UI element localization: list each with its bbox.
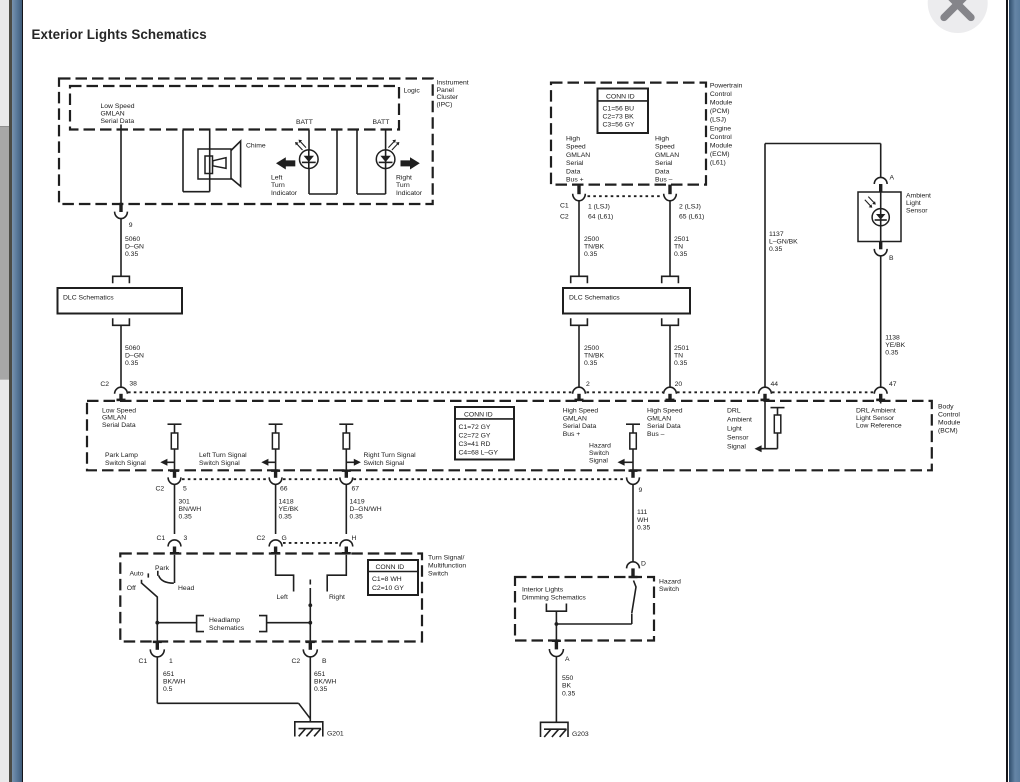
svg-text:GMLAN: GMLAN <box>102 415 126 422</box>
svg-text:67: 67 <box>352 485 360 492</box>
switch headlamp (Auto/Park/Off/Head) <box>142 555 175 642</box>
module box Hazard Switch <box>515 577 654 641</box>
svg-text:Left: Left <box>277 594 288 601</box>
svg-text:DRL: DRL <box>727 408 741 415</box>
wire 5060 D-GN 0.35 (lower) <box>120 325 122 387</box>
svg-text:Turn: Turn <box>271 182 285 189</box>
svg-text:44: 44 <box>771 381 779 388</box>
svg-text:C1: C1 <box>560 203 569 210</box>
wire 1419 D-GN/WH <box>345 484 347 534</box>
logic box (IPC internal) <box>70 86 399 130</box>
svg-text:BK/WH: BK/WH <box>163 679 185 686</box>
svg-text:0.35: 0.35 <box>314 686 327 693</box>
svg-text:C1=72 GY: C1=72 GY <box>459 424 491 431</box>
svg-text:Logic: Logic <box>404 88 421 95</box>
svg-text:DLC Schematics: DLC Schematics <box>569 294 620 301</box>
svg-text:0.35: 0.35 <box>584 360 597 367</box>
svg-text:Bus –: Bus – <box>655 177 673 184</box>
svg-text:GMLAN: GMLAN <box>655 152 679 159</box>
arrow park lamp switch signal <box>160 459 167 466</box>
wire 2501 TN lower <box>669 325 671 387</box>
svg-text:B: B <box>889 255 894 262</box>
svg-text:C2=73 BK: C2=73 BK <box>603 114 635 121</box>
svg-text:1418: 1418 <box>279 498 294 505</box>
svg-text:BK: BK <box>562 683 572 690</box>
svg-text:9: 9 <box>129 222 133 229</box>
svg-text:Module: Module <box>710 100 733 107</box>
svg-text:0.35: 0.35 <box>125 360 138 367</box>
svg-text:Serial Data: Serial Data <box>563 423 597 430</box>
svg-text:38: 38 <box>129 380 137 387</box>
svg-text:Serial Data: Serial Data <box>102 422 136 429</box>
svg-text:Serial Data: Serial Data <box>647 423 681 430</box>
arrow left turn <box>276 157 295 169</box>
svg-text:Multifunction: Multifunction <box>428 562 466 569</box>
svg-text:D–GN: D–GN <box>125 353 144 360</box>
svg-text:GMLAN: GMLAN <box>101 111 125 118</box>
node junction headlamp out <box>155 621 159 625</box>
svg-text:C1: C1 <box>157 535 166 542</box>
svg-text:C2: C2 <box>257 535 266 542</box>
svg-text:BK/WH: BK/WH <box>314 679 336 686</box>
svg-text:C2: C2 <box>156 486 165 493</box>
svg-text:Sensor: Sensor <box>906 208 928 215</box>
dashed tie G-H <box>283 542 339 544</box>
svg-text:Control: Control <box>938 411 960 418</box>
dotted tie line across BCM top connectors <box>128 391 874 393</box>
sensor ALS (Ambient Light Sensor) <box>858 192 901 242</box>
svg-text:Ambient: Ambient <box>727 417 752 424</box>
svg-text:(LSJ): (LSJ) <box>710 117 726 124</box>
svg-text:TN: TN <box>674 353 683 360</box>
svg-text:Low Reference: Low Reference <box>856 423 902 430</box>
module box BCM (Body Control Module) <box>87 401 932 470</box>
box DLC Schematics (left) <box>58 288 183 314</box>
svg-text:Bus –: Bus – <box>647 431 665 438</box>
svg-text:A: A <box>565 656 570 663</box>
svg-text:High: High <box>566 136 580 143</box>
svg-text:2501: 2501 <box>674 345 689 352</box>
svg-text:Hazard: Hazard <box>589 442 611 449</box>
svg-text:Low Speed: Low Speed <box>102 407 136 414</box>
svg-text:550: 550 <box>562 675 574 682</box>
wire hazard out <box>555 611 557 640</box>
svg-text:CONN ID: CONN ID <box>376 564 405 571</box>
svg-text:1137: 1137 <box>769 231 784 238</box>
svg-text:Data: Data <box>566 168 581 175</box>
staples to DLC2 top <box>571 276 588 283</box>
resistor park lamp (BCM) <box>168 424 182 470</box>
svg-text:C3=56 GY: C3=56 GY <box>603 122 635 129</box>
svg-text:C3=41 RD: C3=41 RD <box>459 441 491 448</box>
SCHEM3 <box>120 554 466 642</box>
svg-text:GMLAN: GMLAN <box>566 152 590 159</box>
svg-text:Left: Left <box>271 175 282 182</box>
switch turn signal left contact <box>276 555 294 592</box>
svg-text:Head: Head <box>178 585 194 592</box>
svg-text:DLC Schematics: DLC Schematics <box>63 294 114 301</box>
wire 1137 L-GN/BK <box>765 143 881 145</box>
arrow left turn signal switch signal <box>261 459 268 466</box>
svg-text:Powertrain: Powertrain <box>710 82 743 89</box>
svg-text:G: G <box>282 535 287 542</box>
svg-text:Control: Control <box>710 91 732 98</box>
svg-text:9: 9 <box>639 487 643 494</box>
module box IPC (Instrument Panel Cluster) <box>59 79 433 205</box>
svg-text:5: 5 <box>183 486 187 493</box>
svg-text:Light Sensor: Light Sensor <box>856 415 895 422</box>
wire ground run <box>157 702 298 704</box>
connector C1 pin 1 (MFS out) <box>153 641 162 644</box>
staple interior lights dimming <box>546 604 566 612</box>
svg-text:Module: Module <box>938 419 961 426</box>
svg-text:0.5: 0.5 <box>163 686 173 693</box>
svg-text:Switch Signal: Switch Signal <box>364 460 405 467</box>
arrow right turn <box>401 157 420 169</box>
wire 2501 TN upper <box>669 201 671 276</box>
switch turn signal common <box>309 580 311 585</box>
wire 550 BK <box>555 656 557 722</box>
svg-text:111: 111 <box>637 509 648 516</box>
connector C1/C2 pin 2/65 <box>668 185 671 195</box>
svg-text:(ECM): (ECM) <box>710 151 730 158</box>
svg-text:Ambient: Ambient <box>906 193 931 200</box>
svg-text:0.35: 0.35 <box>769 246 782 253</box>
svg-text:High Speed: High Speed <box>647 408 683 415</box>
wire low speed GMLAN from IPC <box>120 125 122 204</box>
svg-text:B: B <box>322 658 327 665</box>
arrow right turn signal switch signal <box>354 459 361 466</box>
dotted connector tie line <box>588 195 663 197</box>
wire 651 BK/WH 0.35 <box>309 656 311 721</box>
svg-text:0.35: 0.35 <box>350 514 363 521</box>
svg-text:CONN ID: CONN ID <box>606 93 635 100</box>
svg-text:Chime: Chime <box>246 143 266 150</box>
svg-text:2500: 2500 <box>584 345 599 352</box>
svg-text:BATT: BATT <box>296 119 313 126</box>
wire 2500 TN/BK upper <box>578 201 580 276</box>
lamp left turn indicator <box>295 130 337 194</box>
svg-text:651: 651 <box>314 671 326 678</box>
svg-text:Turn: Turn <box>396 182 410 189</box>
svg-text:D–GN: D–GN <box>125 244 144 251</box>
svg-text:C1: C1 <box>139 658 148 665</box>
module box Turn Signal/Multifunction Switch <box>120 554 422 642</box>
chime speaker icon <box>183 130 241 192</box>
svg-text:GMLAN: GMLAN <box>563 415 587 422</box>
wire 2500 TN/BK lower <box>578 325 580 387</box>
svg-text:1 (LSJ): 1 (LSJ) <box>588 203 610 210</box>
svg-text:Light: Light <box>727 426 742 433</box>
svg-text:1: 1 <box>169 658 173 665</box>
svg-text:66: 66 <box>280 485 288 492</box>
svg-text:C2: C2 <box>560 213 569 220</box>
wire 1138 YE/BK <box>880 256 882 388</box>
dotted tie line BCM bottom connectors <box>182 478 269 480</box>
wire to headlamp schematics <box>157 622 196 624</box>
svg-text:Body: Body <box>938 403 954 410</box>
svg-text:TN/BK: TN/BK <box>584 353 604 360</box>
conn id table (PCM) <box>598 89 649 134</box>
svg-text:Engine: Engine <box>710 125 731 132</box>
svg-text:Left Turn Signal: Left Turn Signal <box>199 452 247 459</box>
svg-text:GMLAN: GMLAN <box>647 415 671 422</box>
stub pin 47 internal <box>880 401 882 404</box>
svg-text:Speed: Speed <box>655 144 675 151</box>
wire to ambient light sensor pin A <box>880 144 882 178</box>
svg-text:Module: Module <box>710 143 733 150</box>
connector C2 pin 5 exit <box>170 469 179 472</box>
staples from DLC2 bottom <box>571 318 588 325</box>
ground G201 <box>295 721 323 737</box>
ground G203 <box>541 722 569 738</box>
bracket headlamp schematics left <box>197 616 204 632</box>
svg-text:Signal: Signal <box>589 458 608 465</box>
connector pin 9 (IPC) <box>119 203 122 212</box>
svg-text:301: 301 <box>179 498 191 505</box>
svg-text:Instrument: Instrument <box>437 80 469 87</box>
svg-text:Sensor: Sensor <box>727 435 749 442</box>
svg-text:Park: Park <box>155 565 170 572</box>
close button <box>928 0 988 33</box>
svg-text:Right Turn Signal: Right Turn Signal <box>364 452 417 459</box>
svg-text:A: A <box>890 175 895 182</box>
svg-text:Low Speed: Low Speed <box>101 103 135 110</box>
svg-text:C2=10 GY: C2=10 GY <box>372 585 404 592</box>
connector C2 pin B (MFS out) <box>306 641 315 644</box>
svg-text:G201: G201 <box>327 730 344 737</box>
arrow DRL sensor signal <box>755 445 762 452</box>
connector pin 9 exit <box>629 469 638 472</box>
svg-text:Interior Lights: Interior Lights <box>522 587 564 594</box>
svg-text:C4=68 L–GY: C4=68 L–GY <box>459 449 499 456</box>
wire DRL sensor signal (pin 44 internal) <box>764 401 766 449</box>
arrow hazard switch signal <box>618 459 625 466</box>
switch turn signal right contact <box>327 555 346 592</box>
bracket headlamp schematics right <box>259 616 267 632</box>
svg-text:D–GN/WH: D–GN/WH <box>350 506 382 513</box>
svg-text:0.35: 0.35 <box>637 525 650 532</box>
svg-text:Indicator: Indicator <box>271 190 298 197</box>
svg-text:Schematics: Schematics <box>209 625 245 632</box>
resistor hazard (BCM) <box>626 424 640 470</box>
svg-text:(PCM): (PCM) <box>710 108 730 115</box>
svg-text:0.35: 0.35 <box>584 251 597 258</box>
svg-text:D: D <box>641 561 646 568</box>
svg-text:0.35: 0.35 <box>125 251 138 258</box>
svg-text:20: 20 <box>675 381 683 388</box>
svg-text:0.35: 0.35 <box>279 514 292 521</box>
svg-text:Park Lamp: Park Lamp <box>105 452 138 459</box>
svg-text:Light: Light <box>906 200 921 207</box>
svg-text:0.35: 0.35 <box>674 360 687 367</box>
svg-text:Switch Signal: Switch Signal <box>199 460 240 467</box>
svg-text:5060: 5060 <box>125 236 140 243</box>
svg-text:DRL Ambient: DRL Ambient <box>856 407 896 414</box>
resistor right turn signal (BCM) <box>339 424 353 470</box>
box DLC Schematics (right) <box>563 288 690 314</box>
svg-text:5060: 5060 <box>125 345 140 352</box>
svg-text:Dimming Schematics: Dimming Schematics <box>522 594 586 601</box>
SCHEM2 <box>87 401 961 470</box>
svg-text:Switch Signal: Switch Signal <box>105 460 146 467</box>
wire 111 WH <box>632 484 634 562</box>
wire 1418 YE/BK <box>275 484 277 534</box>
svg-text:2: 2 <box>586 381 590 388</box>
svg-text:Turn Signal/: Turn Signal/ <box>428 554 465 561</box>
SCHEMATIC <box>59 79 469 205</box>
svg-text:BN/WH: BN/WH <box>179 506 202 513</box>
wire 5060 D-GN 0.35 (upper) <box>120 219 122 276</box>
svg-text:3: 3 <box>184 535 188 542</box>
svg-text:(BCM): (BCM) <box>938 427 958 434</box>
svg-text:BATT: BATT <box>373 119 390 126</box>
connector C1/C2 pin 1/64 <box>577 185 580 195</box>
svg-text:0.35: 0.35 <box>885 350 898 357</box>
svg-text:2501: 2501 <box>674 236 689 243</box>
svg-text:Switch: Switch <box>428 570 448 577</box>
svg-text:47: 47 <box>889 381 897 388</box>
svg-text:651: 651 <box>163 671 175 678</box>
svg-text:L–GN/BK: L–GN/BK <box>769 239 798 246</box>
svg-text:C1=8 WH: C1=8 WH <box>372 576 402 583</box>
svg-text:High Speed: High Speed <box>563 408 599 415</box>
svg-text:C1=56 BU: C1=56 BU <box>603 106 635 113</box>
wire 301 BN/WH <box>174 484 176 534</box>
svg-text:0.35: 0.35 <box>674 251 687 258</box>
svg-text:Right: Right <box>329 594 345 601</box>
conn id table (MFS) <box>368 560 418 595</box>
svg-text:CONN ID: CONN ID <box>464 412 493 419</box>
svg-text:Right: Right <box>396 175 412 182</box>
svg-text:1138: 1138 <box>885 334 900 341</box>
svg-text:Speed: Speed <box>566 144 586 151</box>
svg-text:Headlamp: Headlamp <box>209 617 240 624</box>
svg-text:H: H <box>352 535 357 542</box>
svg-text:Bus +: Bus + <box>566 177 584 184</box>
svg-text:(L61): (L61) <box>710 160 726 167</box>
svg-text:Indicator: Indicator <box>396 190 423 197</box>
off-page staple to DLC (top) <box>113 276 130 283</box>
svg-text:2 (LSJ): 2 (LSJ) <box>679 203 701 210</box>
svg-text:TN/BK: TN/BK <box>584 244 604 251</box>
switch hazard blade <box>632 581 636 614</box>
svg-text:Off: Off <box>127 585 136 592</box>
off-page staple from DLC (bottom) <box>113 318 130 325</box>
svg-text:YE/BK: YE/BK <box>885 342 905 349</box>
svg-text:1419: 1419 <box>350 498 365 505</box>
svg-text:0.35: 0.35 <box>179 514 192 521</box>
svg-text:Panel: Panel <box>437 87 455 94</box>
svg-text:(IPC): (IPC) <box>437 101 453 108</box>
svg-text:Bus +: Bus + <box>563 431 581 438</box>
svg-text:64 (L61): 64 (L61) <box>588 214 613 221</box>
svg-text:65 (L61): 65 (L61) <box>679 214 704 221</box>
svg-text:G203: G203 <box>572 731 589 738</box>
resistor left turn signal (BCM) <box>269 424 283 470</box>
connector pin A (hazard out) <box>552 640 561 642</box>
svg-text:YE/BK: YE/BK <box>279 506 299 513</box>
wire 651 BK/WH 0.5 <box>156 656 158 703</box>
chrome bars <box>0 0 9 782</box>
svg-text:C2: C2 <box>100 381 109 388</box>
svg-text:Serial: Serial <box>655 160 673 167</box>
svg-text:0.35: 0.35 <box>562 690 575 697</box>
conn id table (BCM) <box>455 407 514 460</box>
svg-text:Auto: Auto <box>130 570 144 577</box>
svg-text:TN: TN <box>674 244 683 251</box>
svg-text:Switch: Switch <box>659 586 679 593</box>
svg-text:C2=72 GY: C2=72 GY <box>459 432 491 439</box>
svg-text:2500: 2500 <box>584 236 599 243</box>
svg-text:Hazard: Hazard <box>659 579 681 586</box>
svg-text:Serial: Serial <box>566 160 584 167</box>
svg-text:High: High <box>655 136 669 143</box>
module box PCM/ECM <box>551 83 706 185</box>
lamp right turn indicator <box>357 130 399 194</box>
svg-text:C2: C2 <box>292 658 301 665</box>
svg-text:Data: Data <box>655 168 670 175</box>
svg-text:Control: Control <box>710 134 732 141</box>
svg-text:Signal: Signal <box>727 444 746 451</box>
wire bracket to turn switch common <box>267 622 311 624</box>
svg-text:Serial Data: Serial Data <box>101 118 135 125</box>
resistor DRL ambient light sensor (BCM) <box>771 408 785 449</box>
connector pin 67 exit <box>342 469 351 472</box>
connector pin 66 exit <box>271 469 280 472</box>
svg-text:WH: WH <box>637 517 648 524</box>
svg-text:Cluster: Cluster <box>437 94 459 101</box>
connector pin B (ALS) <box>879 242 882 250</box>
connector pin A (ALS) <box>874 177 887 184</box>
svg-text:Switch: Switch <box>589 450 609 457</box>
